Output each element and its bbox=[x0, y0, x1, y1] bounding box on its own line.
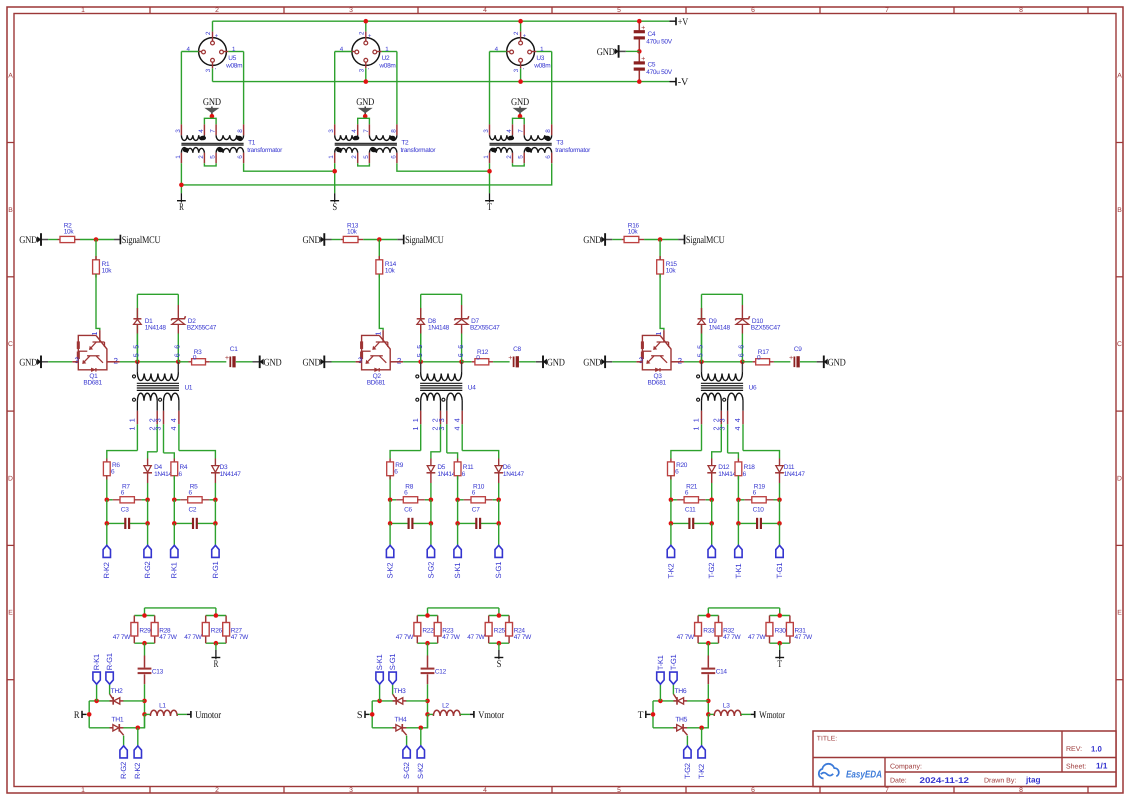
svg-text:TH3: TH3 bbox=[394, 688, 406, 695]
svg-text:4: 4 bbox=[483, 7, 487, 14]
svg-text:8: 8 bbox=[1019, 787, 1023, 794]
svg-text:S-K1: S-K1 bbox=[453, 563, 462, 579]
svg-text:4: 4 bbox=[483, 787, 487, 794]
svg-text:T-G1: T-G1 bbox=[775, 563, 784, 579]
svg-text:Wmotor: Wmotor bbox=[759, 710, 785, 721]
svg-text:-V: -V bbox=[678, 77, 689, 88]
svg-text:transformator: transformator bbox=[555, 147, 591, 154]
svg-text:T-K2: T-K2 bbox=[666, 564, 675, 579]
svg-text:R-G2: R-G2 bbox=[119, 762, 128, 779]
svg-text:3: 3 bbox=[718, 427, 727, 431]
svg-text:R-G1: R-G1 bbox=[211, 561, 220, 578]
svg-text:GND: GND bbox=[583, 235, 601, 246]
svg-text:C5: C5 bbox=[648, 62, 656, 69]
svg-text:47 7W: 47 7W bbox=[677, 634, 695, 641]
svg-text:D: D bbox=[1117, 475, 1122, 482]
svg-text:REV:: REV: bbox=[1066, 746, 1082, 753]
svg-text:+: + bbox=[641, 23, 645, 32]
svg-text:1: 1 bbox=[128, 427, 137, 431]
svg-text:R26: R26 bbox=[211, 628, 223, 635]
svg-text:6: 6 bbox=[173, 353, 182, 357]
svg-text:S-K2: S-K2 bbox=[386, 563, 395, 579]
svg-text:10k: 10k bbox=[64, 228, 75, 235]
svg-text:S-G2: S-G2 bbox=[402, 762, 411, 779]
svg-text:+: + bbox=[641, 54, 645, 63]
svg-text:w08m: w08m bbox=[533, 62, 550, 69]
svg-text:10k: 10k bbox=[666, 267, 677, 274]
svg-text:4: 4 bbox=[452, 418, 461, 422]
svg-text:BZX55C47: BZX55C47 bbox=[470, 325, 500, 332]
svg-text:C: C bbox=[8, 341, 13, 348]
svg-text:+V: +V bbox=[678, 17, 689, 28]
svg-text:1: 1 bbox=[90, 332, 99, 336]
svg-text:1: 1 bbox=[81, 7, 85, 14]
svg-text:U4: U4 bbox=[468, 384, 476, 391]
svg-text:GND: GND bbox=[303, 357, 321, 368]
svg-text:C7: C7 bbox=[472, 506, 480, 513]
svg-text:+: + bbox=[508, 353, 512, 362]
svg-text:10k: 10k bbox=[628, 228, 639, 235]
svg-text:T-K2: T-K2 bbox=[697, 764, 706, 779]
svg-text:C6: C6 bbox=[404, 506, 412, 513]
svg-text:T-G1: T-G1 bbox=[669, 655, 678, 671]
svg-text:7: 7 bbox=[885, 787, 889, 794]
svg-text:Umotor: Umotor bbox=[195, 710, 221, 721]
svg-text:5: 5 bbox=[415, 353, 424, 357]
svg-text:+: + bbox=[225, 353, 229, 362]
svg-text:TH1: TH1 bbox=[111, 716, 123, 723]
svg-text:Vmotor: Vmotor bbox=[478, 710, 504, 721]
svg-text:1: 1 bbox=[411, 427, 420, 431]
svg-text:10k: 10k bbox=[385, 267, 396, 274]
svg-text:GND: GND bbox=[264, 357, 282, 368]
svg-text:S: S bbox=[357, 710, 363, 721]
svg-text:SignalMCU: SignalMCU bbox=[686, 235, 725, 246]
svg-text:R22: R22 bbox=[422, 628, 434, 635]
svg-text:C9: C9 bbox=[794, 346, 802, 353]
svg-text:R-K1: R-K1 bbox=[170, 562, 179, 578]
svg-text:4: 4 bbox=[452, 427, 461, 431]
svg-text:Company:: Company: bbox=[890, 763, 922, 770]
svg-text:10k: 10k bbox=[102, 267, 113, 274]
svg-text:GND: GND bbox=[597, 47, 615, 58]
svg-text:R-G1: R-G1 bbox=[105, 653, 114, 670]
svg-text:GND: GND bbox=[203, 97, 221, 108]
svg-text:R: R bbox=[179, 202, 184, 213]
svg-text:A: A bbox=[8, 73, 13, 80]
svg-text:S: S bbox=[332, 202, 337, 213]
svg-text:3: 3 bbox=[349, 787, 353, 794]
svg-text:transformator: transformator bbox=[247, 147, 283, 154]
svg-text:4: 4 bbox=[169, 418, 178, 422]
svg-text:R33: R33 bbox=[703, 628, 715, 635]
svg-text:GND: GND bbox=[511, 97, 529, 108]
svg-text:SignalMCU: SignalMCU bbox=[405, 235, 444, 246]
svg-text:5: 5 bbox=[132, 353, 141, 357]
svg-text:47 7W: 47 7W bbox=[184, 634, 202, 641]
svg-text:5: 5 bbox=[132, 345, 141, 349]
svg-text:B: B bbox=[1117, 207, 1122, 214]
svg-text:T-G2: T-G2 bbox=[683, 763, 692, 779]
svg-text:6: 6 bbox=[737, 353, 746, 357]
svg-text:47 7W: 47 7W bbox=[113, 634, 131, 641]
svg-text:S-K2: S-K2 bbox=[416, 763, 425, 779]
svg-text:1N4147: 1N4147 bbox=[503, 471, 525, 478]
svg-text:C12: C12 bbox=[435, 669, 447, 676]
svg-text:1: 1 bbox=[692, 427, 701, 431]
svg-text:T1: T1 bbox=[248, 140, 256, 147]
svg-text:1N4147: 1N4147 bbox=[784, 471, 806, 478]
svg-text:T: T bbox=[638, 710, 644, 721]
svg-text:TH2: TH2 bbox=[111, 688, 123, 695]
svg-text:2024-11-12: 2024-11-12 bbox=[920, 776, 970, 785]
svg-text:47 7W: 47 7W bbox=[748, 634, 766, 641]
svg-text:w08m: w08m bbox=[225, 62, 242, 69]
svg-text:S-G2: S-G2 bbox=[426, 562, 435, 579]
svg-text:R: R bbox=[74, 710, 80, 721]
svg-text:1: 1 bbox=[692, 418, 701, 422]
svg-text:T-K1: T-K1 bbox=[656, 655, 665, 670]
svg-text:R-K2: R-K2 bbox=[102, 562, 111, 578]
svg-text:1: 1 bbox=[411, 418, 420, 422]
svg-text:BD681: BD681 bbox=[83, 380, 102, 387]
svg-text:BD681: BD681 bbox=[648, 380, 667, 387]
svg-text:1: 1 bbox=[128, 418, 137, 422]
svg-text:47 7W: 47 7W bbox=[159, 634, 177, 641]
svg-text:U2: U2 bbox=[382, 55, 390, 62]
svg-text:T: T bbox=[777, 659, 782, 670]
svg-text:S-G1: S-G1 bbox=[494, 562, 503, 579]
svg-text:TH5: TH5 bbox=[675, 716, 687, 723]
svg-text:E: E bbox=[8, 610, 13, 617]
svg-text:BZX55C47: BZX55C47 bbox=[751, 325, 781, 332]
svg-text:1.0: 1.0 bbox=[1091, 745, 1103, 754]
svg-text:47 7W: 47 7W bbox=[723, 634, 741, 641]
svg-text:1N4148: 1N4148 bbox=[709, 325, 731, 332]
svg-text:6: 6 bbox=[751, 7, 755, 14]
svg-text:T3: T3 bbox=[556, 140, 564, 147]
svg-text:C: C bbox=[1117, 341, 1122, 348]
svg-text:w08m: w08m bbox=[378, 62, 395, 69]
svg-text:5: 5 bbox=[617, 7, 621, 14]
svg-text:4: 4 bbox=[733, 427, 742, 431]
svg-text:R: R bbox=[214, 659, 219, 670]
svg-text:47 7W: 47 7W bbox=[396, 634, 414, 641]
svg-text:5: 5 bbox=[696, 345, 705, 349]
svg-text:C2: C2 bbox=[189, 506, 197, 513]
svg-text:1N4147: 1N4147 bbox=[220, 471, 242, 478]
svg-text:470u 50V: 470u 50V bbox=[646, 38, 672, 45]
svg-text:GND: GND bbox=[19, 357, 37, 368]
svg-text:EasyEDA: EasyEDA bbox=[846, 770, 882, 781]
svg-text:U1: U1 bbox=[185, 384, 193, 391]
svg-text:3: 3 bbox=[437, 418, 446, 422]
svg-text:GND: GND bbox=[547, 357, 565, 368]
svg-text:6: 6 bbox=[173, 345, 182, 349]
svg-text:R30: R30 bbox=[775, 628, 787, 635]
svg-text:R-K2: R-K2 bbox=[133, 763, 142, 779]
svg-text:3: 3 bbox=[718, 418, 727, 422]
svg-text:U5: U5 bbox=[228, 55, 236, 62]
svg-text:7: 7 bbox=[885, 7, 889, 14]
svg-text:GND: GND bbox=[303, 235, 321, 246]
svg-text:5: 5 bbox=[617, 787, 621, 794]
svg-text:BZX55C47: BZX55C47 bbox=[187, 325, 217, 332]
svg-text:47 7W: 47 7W bbox=[514, 634, 532, 641]
svg-text:R-G2: R-G2 bbox=[143, 561, 152, 578]
svg-text:C13: C13 bbox=[152, 669, 164, 676]
svg-text:GND: GND bbox=[583, 357, 601, 368]
svg-text:C3: C3 bbox=[121, 506, 129, 513]
svg-text:3: 3 bbox=[154, 427, 163, 431]
svg-text:5: 5 bbox=[415, 345, 424, 349]
svg-text:R29: R29 bbox=[139, 628, 151, 635]
svg-text:Drawn By:: Drawn By: bbox=[984, 777, 1016, 784]
svg-text:Date:: Date: bbox=[890, 777, 907, 784]
svg-text:6: 6 bbox=[737, 345, 746, 349]
svg-text:8: 8 bbox=[1019, 7, 1023, 14]
svg-text:jtag: jtag bbox=[1025, 776, 1041, 785]
svg-text:L1: L1 bbox=[159, 703, 166, 710]
svg-text:S-K1: S-K1 bbox=[375, 655, 384, 671]
svg-text:L2: L2 bbox=[442, 703, 449, 710]
svg-text:C8: C8 bbox=[513, 346, 521, 353]
svg-text:D: D bbox=[8, 475, 13, 482]
svg-text:1N4148: 1N4148 bbox=[428, 325, 450, 332]
svg-text:U6: U6 bbox=[749, 384, 757, 391]
svg-text:GND: GND bbox=[828, 357, 846, 368]
svg-text:transformator: transformator bbox=[401, 147, 437, 154]
svg-text:T: T bbox=[487, 202, 492, 213]
svg-text:6: 6 bbox=[456, 345, 465, 349]
svg-text:1: 1 bbox=[81, 787, 85, 794]
svg-text:S-G1: S-G1 bbox=[388, 654, 397, 671]
svg-text:TITLE:: TITLE: bbox=[817, 736, 838, 743]
svg-text:6: 6 bbox=[751, 787, 755, 794]
svg-text:47 7W: 47 7W bbox=[442, 634, 460, 641]
svg-text:3: 3 bbox=[349, 7, 353, 14]
svg-text:1N4148: 1N4148 bbox=[145, 325, 167, 332]
svg-text:470u 50V: 470u 50V bbox=[646, 69, 672, 76]
svg-text:B: B bbox=[8, 207, 13, 214]
svg-text:C4: C4 bbox=[648, 31, 656, 38]
svg-text:C11: C11 bbox=[685, 506, 696, 513]
svg-text:R25: R25 bbox=[494, 628, 506, 635]
svg-text:R-K1: R-K1 bbox=[92, 654, 101, 670]
svg-text:1: 1 bbox=[373, 332, 382, 336]
svg-text:U3: U3 bbox=[536, 55, 544, 62]
svg-text:4: 4 bbox=[733, 418, 742, 422]
svg-text:T-K1: T-K1 bbox=[734, 564, 743, 579]
svg-text:C10: C10 bbox=[753, 506, 765, 513]
svg-text:10k: 10k bbox=[347, 228, 358, 235]
svg-text:A: A bbox=[1117, 73, 1122, 80]
svg-text:GND: GND bbox=[356, 97, 374, 108]
svg-text:Sheet:: Sheet: bbox=[1066, 762, 1086, 770]
svg-text:3: 3 bbox=[154, 418, 163, 422]
svg-text:L3: L3 bbox=[723, 703, 730, 710]
svg-text:C1: C1 bbox=[230, 346, 238, 353]
svg-text:GND: GND bbox=[19, 235, 37, 246]
svg-text:E: E bbox=[1117, 610, 1122, 617]
svg-text:47 7W: 47 7W bbox=[231, 634, 249, 641]
svg-text:4: 4 bbox=[169, 427, 178, 431]
svg-text:SignalMCU: SignalMCU bbox=[122, 235, 161, 246]
svg-text:S: S bbox=[497, 659, 502, 670]
svg-text:1/1: 1/1 bbox=[1096, 762, 1108, 771]
svg-text:T-G2: T-G2 bbox=[707, 563, 716, 579]
svg-text:47 7W: 47 7W bbox=[467, 634, 485, 641]
svg-text:1: 1 bbox=[654, 332, 663, 336]
svg-text:C14: C14 bbox=[716, 669, 728, 676]
svg-text:2: 2 bbox=[215, 787, 219, 794]
svg-text:6: 6 bbox=[456, 353, 465, 357]
svg-text:BD681: BD681 bbox=[367, 380, 386, 387]
svg-text:5: 5 bbox=[696, 353, 705, 357]
svg-text:2: 2 bbox=[215, 7, 219, 14]
svg-text:+: + bbox=[789, 353, 793, 362]
svg-text:TH4: TH4 bbox=[394, 716, 406, 723]
svg-text:3: 3 bbox=[437, 427, 446, 431]
svg-text:TH6: TH6 bbox=[674, 688, 686, 695]
svg-text:T2: T2 bbox=[401, 140, 409, 147]
svg-text:47 7W: 47 7W bbox=[795, 634, 813, 641]
